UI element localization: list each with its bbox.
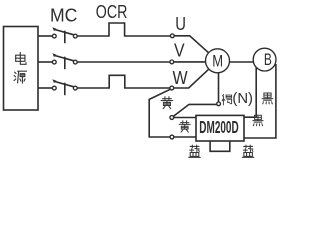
- label 褐 brown: [222, 95, 232, 105]
- brake B circle: [253, 48, 276, 71]
- OCR heater element phase1: [109, 23, 125, 37]
- wire W terminal to motor: [174, 69, 209, 88]
- svg-text:V: V: [174, 41, 185, 61]
- label 黄 yellow 1: [161, 97, 173, 109]
- wire V terminal to motor: [174, 61, 206, 63]
- label 黄 yellow 2: [179, 121, 190, 133]
- terminal W circle: [170, 86, 174, 90]
- terminal V circle: [170, 60, 174, 64]
- contactor MC pole 2: [52, 53, 77, 69]
- wire U terminal to motor: [174, 36, 208, 53]
- contactor MC pole 3: [52, 79, 77, 95]
- wire phase1 OCR to U terminal: [125, 35, 171, 37]
- motor M circle: [206, 49, 230, 73]
- label 蓝 blue 2: [242, 145, 254, 157]
- label 黑 black 1: [262, 93, 273, 104]
- OCR heater element phase3: [109, 75, 125, 88]
- connector B circle: [170, 135, 174, 139]
- terminal N circle: [217, 102, 221, 106]
- svg-text:MC: MC: [50, 4, 77, 25]
- wire connector B to DM200D: [174, 136, 196, 138]
- wire phase1 MC to OCR: [77, 35, 109, 37]
- contactor MC pole 1: [52, 27, 77, 43]
- connector A circle: [170, 116, 174, 120]
- tab below DM200D: [210, 141, 230, 151]
- brown N wire to connector A: [173, 104, 217, 116]
- black wire 1 from DM200D to brake: [244, 68, 256, 118]
- svg-text:U: U: [175, 14, 186, 34]
- yellow wire from W terminal: [149, 89, 170, 137]
- wire phase1 from box to MC: [38, 35, 52, 37]
- motor N lead down: [218, 73, 220, 102]
- label 电 (power char): [16, 53, 26, 65]
- label 源 (source char): [14, 71, 27, 83]
- wire phase2 MC to V terminal: [77, 61, 170, 63]
- wire motor to brake: [230, 61, 254, 63]
- svg-text:OCR: OCR: [96, 1, 128, 22]
- terminal U circle: [170, 34, 174, 38]
- wire phase3 from box to MC: [38, 87, 52, 89]
- wire connector A to DM200D: [174, 117, 196, 119]
- svg-text:B: B: [264, 51, 272, 69]
- rectifier box DM200D: [196, 115, 244, 141]
- wire phase3 MC to OCR: [77, 87, 109, 89]
- svg-text:(N): (N): [232, 91, 253, 107]
- label 黑 black 2: [253, 115, 263, 125]
- svg-text:M: M: [212, 53, 223, 71]
- label 蓝 blue 1: [189, 145, 201, 157]
- power source box 电源: [4, 27, 39, 111]
- wire phase2 from box to MC: [38, 61, 52, 63]
- black wire 2 from brake to DM200D: [244, 64, 276, 138]
- svg-text:DM200D: DM200D: [199, 117, 238, 137]
- svg-text:W: W: [173, 68, 188, 88]
- wire phase3 OCR to W terminal: [125, 87, 170, 89]
